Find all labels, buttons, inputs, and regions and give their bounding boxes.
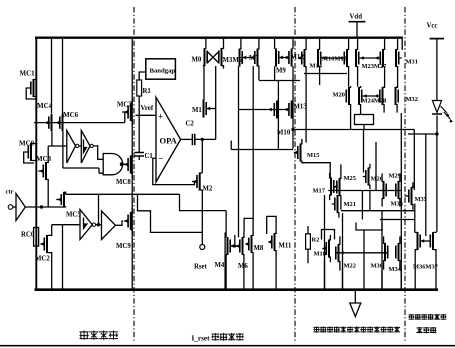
svg-text:M4: M4 xyxy=(215,262,225,269)
svg-text:Vcc: Vcc xyxy=(427,23,438,30)
svg-text:Bandgap: Bandgap xyxy=(150,68,176,75)
svg-text:M17: M17 xyxy=(313,188,326,195)
svg-text:M14: M14 xyxy=(310,63,323,70)
svg-text:M20: M20 xyxy=(333,92,345,99)
svg-text:M22: M22 xyxy=(344,263,356,270)
svg-text:M13: M13 xyxy=(294,104,308,111)
svg-text:MC5: MC5 xyxy=(66,212,81,219)
svg-text:MC1: MC1 xyxy=(20,70,36,78)
svg-text:MC4: MC4 xyxy=(37,102,53,110)
svg-text:MC6: MC6 xyxy=(63,111,79,119)
svg-text:−: − xyxy=(158,154,163,164)
svg-text:Rset: Rset xyxy=(194,264,208,271)
svg-text:M29: M29 xyxy=(389,173,401,180)
svg-text:C1: C1 xyxy=(145,153,154,160)
svg-text:M31: M31 xyxy=(406,59,418,66)
svg-text:R2: R2 xyxy=(312,237,320,244)
svg-text:OPA: OPA xyxy=(160,136,178,146)
svg-text:M16M19: M16M19 xyxy=(322,56,347,63)
svg-text:M7: M7 xyxy=(249,55,259,62)
svg-text:M2: M2 xyxy=(203,186,213,193)
svg-text:M1: M1 xyxy=(192,107,202,114)
svg-text:MC9: MC9 xyxy=(116,243,131,250)
svg-text:M35: M35 xyxy=(415,196,427,203)
svg-text:MC3: MC3 xyxy=(36,155,52,163)
svg-text:M30: M30 xyxy=(371,263,383,270)
svg-text:M21: M21 xyxy=(344,201,356,208)
svg-text:MC2: MC2 xyxy=(35,256,50,263)
svg-text:M6: M6 xyxy=(238,263,248,270)
svg-text:Vdd: Vdd xyxy=(350,14,363,21)
svg-text:R1: R1 xyxy=(143,88,152,95)
svg-text:M0: M0 xyxy=(192,57,202,64)
svg-text:+: + xyxy=(158,112,163,122)
svg-text:M36M37: M36M37 xyxy=(413,264,439,271)
svg-text:MC8: MC8 xyxy=(116,179,131,186)
svg-text:M10: M10 xyxy=(277,130,291,137)
svg-text:M8: M8 xyxy=(254,245,264,252)
svg-text:C2: C2 xyxy=(186,121,195,128)
svg-text:M25: M25 xyxy=(344,175,356,182)
svg-text:RC0: RC0 xyxy=(21,232,35,239)
svg-text:I_rset: I_rset xyxy=(192,335,211,343)
svg-text:ctr: ctr xyxy=(6,189,14,196)
svg-text:M11: M11 xyxy=(279,243,292,250)
svg-text:M15: M15 xyxy=(307,152,319,159)
svg-text:M9: M9 xyxy=(276,68,286,75)
svg-text:M32: M32 xyxy=(406,96,418,103)
svg-text:Vref: Vref xyxy=(141,105,154,112)
